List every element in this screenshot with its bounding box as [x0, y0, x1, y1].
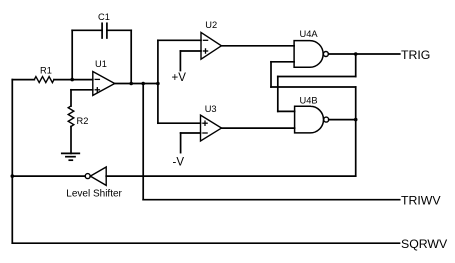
wire: U3 inverting input stub — [181, 132, 201, 134]
wire: SQRWV horizontal — [12, 242, 399, 244]
wire: bus to U2 inverting input — [158, 39, 201, 41]
svg-text:TRIWV: TRIWV — [401, 193, 441, 207]
wire: bus to U3 non-inverting input — [158, 122, 201, 124]
wire: left feedback bus vertical — [11, 80, 13, 244]
wire: comparator bus vertical — [157, 40, 159, 123]
ground — [62, 153, 80, 160]
wire: R2 to ground — [70, 127, 72, 154]
op-amp U1 — [93, 59, 115, 95]
node: junction U4B output — [354, 118, 358, 122]
wire: U1 non-inverting input — [71, 89, 93, 91]
wire: C1 right horizontal — [107, 29, 131, 31]
nand gate U4B — [295, 96, 329, 133]
wire: U4A output drop — [355, 54, 357, 77]
wire: level shifter input horizontal — [106, 175, 356, 177]
wire: U2 non-inverting input stub — [180, 50, 201, 52]
svg-text:+V: +V — [172, 72, 187, 84]
wire: U4B output — [329, 119, 356, 121]
svg-text:R2: R2 — [77, 116, 89, 126]
wire: cross-couple 2 vertical to U4A input 2 — [270, 62, 272, 87]
wire: R1 to U1 inverting input — [54, 79, 93, 81]
wire: C1 right vertical down to U1 output — [130, 30, 132, 83]
wire: U4A input 2 horizontal — [271, 61, 294, 63]
inverter: level shifter — [66, 167, 122, 200]
wire: U1 output — [115, 83, 158, 85]
wire: cross-couple 2 vertical rise — [355, 87, 357, 120]
wire: TRIWV horizontal — [143, 199, 400, 201]
node: junction R1 / C1 feedback — [70, 78, 74, 82]
svg-text:R1: R1 — [40, 65, 52, 75]
wire: cross-couple 2 horizontal — [271, 86, 356, 88]
wire: TRIWV vertical drop — [142, 84, 144, 200]
svg-text:U2: U2 — [205, 20, 217, 30]
wire: non-inverting input down to R2 — [70, 90, 72, 106]
svg-text:U1: U1 — [95, 59, 107, 69]
node: junction U4A output — [354, 52, 358, 56]
wire: U4A output to TRIG — [328, 53, 399, 55]
svg-text:Level Shifter: Level Shifter — [66, 189, 122, 200]
capacitor C1 — [98, 12, 110, 38]
wire: +V stub vertical — [179, 51, 181, 71]
wire: C1 feedback left vertical — [71, 30, 73, 79]
node: junction level shifter output / left bus — [11, 174, 15, 178]
wire: cross-couple 1 vertical — [277, 77, 279, 112]
nand gate U4A — [294, 29, 328, 67]
resistor R2 — [68, 106, 88, 127]
node: junction U1 output / TRIWV branch — [141, 82, 145, 86]
node: junction U1 output / comparator bus — [156, 82, 160, 86]
svg-text:U4A: U4A — [300, 29, 319, 39]
svg-text:U3: U3 — [205, 104, 217, 114]
wire: U4B input 1 horizontal — [278, 110, 295, 112]
wire: U3 output to U4B input 2 — [222, 127, 295, 129]
svg-text:-V: -V — [173, 157, 185, 169]
wire: cross-couple 1 horizontal — [278, 76, 356, 78]
svg-text:U4B: U4B — [300, 96, 318, 106]
svg-text:C1: C1 — [98, 12, 110, 22]
resistor R1 — [34, 65, 54, 82]
wire: -V stub vertical — [180, 133, 182, 153]
wire: level shifter output to left bus — [12, 175, 85, 177]
svg-text:TRIG: TRIG — [401, 48, 430, 62]
wire: R1 input segment — [12, 79, 34, 81]
wire: U2 output to U4A input 1 — [221, 45, 294, 47]
wire: U4B output down to level shifter — [355, 120, 357, 177]
op-amp U3 — [201, 104, 222, 141]
svg-text:SQRWV: SQRWV — [401, 237, 448, 251]
wire: C1 left horizontal — [72, 29, 102, 31]
node: junction C1 feedback / U1 output — [129, 82, 133, 86]
op-amp U2 — [201, 20, 221, 59]
